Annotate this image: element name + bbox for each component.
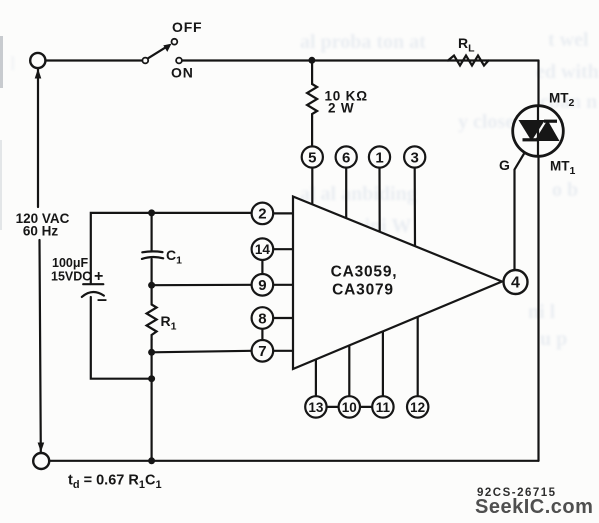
ghost bleed-through text (scan artifact) xyxy=(10,29,599,350)
wire C1 R1 branch vertical xyxy=(151,213,153,251)
svg-text:CA3079: CA3079 xyxy=(332,282,394,299)
switch ON contact xyxy=(176,58,182,64)
junction dot electrolytic branch xyxy=(148,375,155,382)
wire pin14-pin9 connector xyxy=(261,260,263,274)
triac top bar xyxy=(544,120,557,123)
wire pin10-pin11 connector xyxy=(360,406,372,408)
wire right vertical to triac MT2 xyxy=(537,61,539,107)
wire pin2 node horizontal xyxy=(91,213,252,284)
capacitor electrolytic bottom plate xyxy=(82,292,104,297)
wire pin9 node to R1 top xyxy=(151,285,153,304)
svg-text:o b: o b xyxy=(552,179,578,201)
wire electrolytic bottom branch xyxy=(91,297,152,379)
svg-text:6: 6 xyxy=(342,149,350,166)
label 100uF 15VDC xyxy=(51,256,91,284)
pin 13 xyxy=(305,396,326,417)
terminal top-left xyxy=(30,53,45,68)
svg-text:CA3059,: CA3059, xyxy=(331,264,398,281)
pin 10 xyxy=(339,396,360,417)
op-amp U1 CA3059 triangle xyxy=(293,197,502,370)
wire 10K resistor top lead xyxy=(311,61,313,85)
triac right triangle xyxy=(535,120,560,141)
wire pin7 horizontal xyxy=(152,351,252,353)
svg-text:2 W: 2 W xyxy=(328,101,354,116)
arrow down (source) xyxy=(38,443,45,453)
svg-text:1: 1 xyxy=(375,149,383,166)
junction dot pin2 node xyxy=(148,209,155,216)
wire pin1 to triangle xyxy=(378,168,380,233)
wire pin9 stub to triangle xyxy=(273,284,293,286)
pin 12 xyxy=(407,396,428,417)
wire left vertical 120VAC bottom xyxy=(40,240,41,453)
resistor 10K zigzag xyxy=(307,84,317,117)
svg-text:3: 3 xyxy=(411,149,419,166)
switch OFF contact xyxy=(172,39,178,45)
junction dot bottom wire xyxy=(148,457,155,464)
capacitor C1 top plate xyxy=(142,250,162,253)
resistor R1 zigzag xyxy=(147,305,157,340)
svg-text:u p: u p xyxy=(540,328,567,350)
wire pin8 stub to triangle xyxy=(273,317,293,319)
wire 10K resistor bottom lead to pin5 xyxy=(311,117,313,147)
wire pin5 to triangle xyxy=(311,168,313,206)
svg-text:15VDC: 15VDC xyxy=(51,270,91,284)
pin 8 xyxy=(252,307,274,329)
svg-text:–: – xyxy=(97,289,107,309)
pin 1 xyxy=(369,146,390,167)
triac vertical line through xyxy=(537,106,539,157)
triac bottom bar xyxy=(523,138,539,141)
wire pin6 to triangle xyxy=(345,168,347,220)
svg-text:7: 7 xyxy=(258,343,266,360)
svg-text:G: G xyxy=(499,157,510,173)
pin 3 xyxy=(404,146,425,167)
label CA3059, CA3079 xyxy=(331,264,398,299)
svg-text:60 Hz: 60 Hz xyxy=(23,224,59,239)
svg-text:ON: ON xyxy=(171,65,194,81)
wire pin3 to triangle xyxy=(414,168,416,248)
wire pin11 to triangle xyxy=(382,331,384,396)
resistor RL zigzag xyxy=(448,56,489,66)
junction dot top resistor xyxy=(308,57,315,64)
wire pin13 to triangle xyxy=(315,360,317,397)
switch blade xyxy=(148,47,167,59)
svg-text:OFF: OFF xyxy=(172,19,202,35)
svg-text:ni l: ni l xyxy=(528,301,556,323)
pin 7 xyxy=(252,340,274,362)
svg-text:+: + xyxy=(94,268,103,285)
svg-text:12: 12 xyxy=(410,400,425,415)
wire pin13-pin10 connector xyxy=(327,406,339,408)
capacitor electrolytic top plate xyxy=(83,283,103,285)
pin 14 xyxy=(252,238,274,260)
svg-text:5: 5 xyxy=(308,149,316,166)
pin 11 xyxy=(372,396,393,417)
svg-text:al proba ton at: al proba ton at xyxy=(300,31,426,53)
svg-text:4: 4 xyxy=(511,275,520,292)
wire pin7 stub to triangle xyxy=(273,350,293,352)
svg-text:t wel: t wel xyxy=(548,29,589,51)
wire between C1 and pin9 node xyxy=(151,259,153,285)
wire pin12 to triangle xyxy=(417,316,419,396)
svg-text:11: 11 xyxy=(376,400,391,415)
wire top from terminal to switch xyxy=(45,59,143,61)
svg-text:100μF: 100μF xyxy=(52,256,89,270)
svg-text:8: 8 xyxy=(258,310,266,327)
pin 2 xyxy=(252,203,274,225)
svg-text:al al anbiding: al al anbiding xyxy=(300,183,417,205)
svg-text:13: 13 xyxy=(308,400,324,415)
wire pin4 to gate xyxy=(515,152,526,271)
junction dot pin9 node xyxy=(148,282,155,289)
svg-text:10: 10 xyxy=(342,400,357,415)
svg-text:14: 14 xyxy=(255,242,271,257)
wire pin10 to triangle xyxy=(348,345,350,396)
wire top from switch ON to right corner xyxy=(182,59,539,61)
pin 4 xyxy=(504,270,528,294)
svg-text:ed with: ed with xyxy=(536,61,599,83)
pin 9 xyxy=(252,274,274,296)
wire pin9 horizontal xyxy=(152,284,252,287)
svg-text:l: l xyxy=(10,53,16,75)
wire R1 bottom to bottom wire xyxy=(151,339,153,461)
triac left triangle xyxy=(519,120,546,141)
wire pin8-pin7 connector xyxy=(261,329,263,340)
switch blade arrowhead xyxy=(163,44,171,52)
label 120 VAC 60 Hz xyxy=(16,209,72,239)
svg-text:SeekIC.com: SeekIC.com xyxy=(475,496,593,518)
junction dot pin7 node xyxy=(148,349,155,356)
wire bottom from terminal to right xyxy=(50,460,539,462)
svg-text:2: 2 xyxy=(258,206,266,223)
capacitor C1 bottom plate xyxy=(142,257,163,259)
terminal bottom-left xyxy=(33,453,49,469)
scan edge streak xyxy=(0,36,3,88)
wire left vertical 120VAC top xyxy=(37,69,39,208)
arrow up (source) xyxy=(35,69,42,79)
pin 6 xyxy=(336,146,357,167)
switch pivot contact xyxy=(142,58,148,64)
wire triac MT1 down to bottom wire xyxy=(537,157,539,461)
triac Q1 circle xyxy=(513,106,564,157)
wire pin2 stub to triangle xyxy=(273,212,293,214)
pin 5 xyxy=(302,146,323,167)
svg-text:9: 9 xyxy=(258,277,266,294)
svg-text:td = 0.67 R1C1: td = 0.67 R1C1 xyxy=(68,473,162,492)
wire pin14 stub to triangle xyxy=(273,248,293,250)
